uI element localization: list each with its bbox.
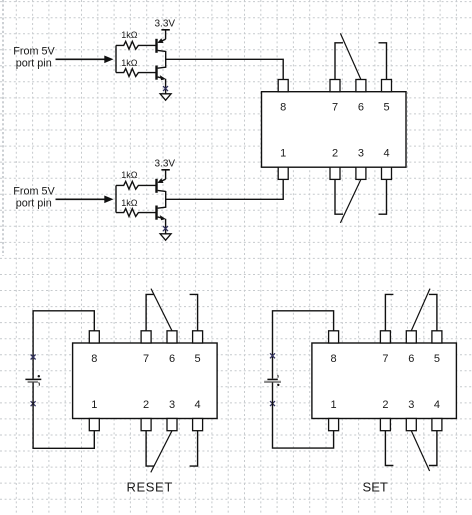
U3 pin 5 xyxy=(432,331,442,343)
switch contact at U2 bottom outer pin B xyxy=(190,431,198,466)
connection point x mark 2 xyxy=(163,226,168,231)
resistor 1k (upper) 2 xyxy=(116,181,156,189)
transistor PNP (upper) 2 xyxy=(155,179,157,193)
U2 pin 4 xyxy=(193,419,203,431)
battery B1 xyxy=(25,378,41,380)
switch contact at U1 bottom outer pin A xyxy=(335,179,343,214)
U3 pin 3 xyxy=(406,419,416,431)
wire: collector junction node 2 xyxy=(165,191,167,208)
switch contact at U3 top outer pin B xyxy=(429,294,437,330)
switch arm at U2 bottom centre pin xyxy=(151,431,172,473)
wire: NPN emitter to ground 1 xyxy=(165,79,167,94)
U1 pin 5 xyxy=(382,80,392,92)
svg-text:4: 4 xyxy=(434,399,440,411)
svg-text:1kΩ: 1kΩ xyxy=(121,58,138,68)
wire: collector junction node 1 xyxy=(165,51,167,68)
svg-text:1: 1 xyxy=(91,399,97,411)
svg-text:8: 8 xyxy=(91,353,97,365)
U3 pin 2 xyxy=(380,419,390,431)
wire: NPN emitter to ground 2 xyxy=(165,219,167,234)
svg-text:2: 2 xyxy=(382,399,388,411)
svg-text:1kΩ: 1kΩ xyxy=(121,30,138,40)
switch contact at U1 bottom outer pin B xyxy=(379,179,387,214)
wire: U3 pin 8 to battery B2 xyxy=(273,311,334,379)
U3 pin 7 xyxy=(380,331,390,343)
resistor 1k (upper) 1 xyxy=(116,41,156,49)
U2 pin 1 xyxy=(89,419,99,431)
svg-text:8: 8 xyxy=(280,102,286,114)
U1 pin 6 xyxy=(356,80,366,92)
svg-text:1kΩ: 1kΩ xyxy=(121,170,138,180)
signal arrow from port pin 1 xyxy=(56,58,106,60)
connection point x mark B1 bottom xyxy=(31,401,36,406)
svg-text:8: 8 xyxy=(331,353,337,365)
transistor PNP (upper) 1 xyxy=(155,39,157,53)
svg-text:3.3V: 3.3V xyxy=(155,158,176,169)
svg-text:From 5V: From 5V xyxy=(13,46,55,58)
svg-text:7: 7 xyxy=(143,353,149,365)
U3 pin 6 xyxy=(406,331,416,343)
svg-text:3.3V: 3.3V xyxy=(155,18,176,29)
U1 pin 4 xyxy=(382,167,392,179)
svg-text:port pin: port pin xyxy=(16,57,52,69)
switch contact at U1 top outer pin A xyxy=(335,43,343,80)
U3 pin 1 xyxy=(329,419,339,431)
wire: U2 pin 8 to battery B1 xyxy=(33,311,94,379)
connection point x mark B2 top xyxy=(270,353,275,358)
switch arm at U3 top centre pin xyxy=(411,289,430,331)
svg-text:From 5V: From 5V xyxy=(13,186,55,198)
connection point x mark B2 bottom xyxy=(270,401,275,406)
signal arrow from port pin 2 xyxy=(56,198,106,200)
switch contact at U2 top outer pin A xyxy=(146,294,154,330)
U1 pin 7 xyxy=(330,80,340,92)
U1 pin 3 xyxy=(356,167,366,179)
IC U3 DIP-8 body xyxy=(312,343,457,419)
U3 pin 8 xyxy=(329,331,339,343)
IC U2 DIP-8 body xyxy=(73,343,218,419)
switch contact at U3 bottom outer pin B xyxy=(429,431,437,466)
svg-text:2: 2 xyxy=(143,399,149,411)
svg-text:7: 7 xyxy=(332,102,338,114)
svg-text:4: 4 xyxy=(195,399,201,411)
svg-text:RESET: RESET xyxy=(127,479,173,494)
U1 pin 8 xyxy=(278,80,288,92)
switch contact at U3 bottom outer pin A xyxy=(385,431,393,466)
switch arm at U2 top centre pin xyxy=(151,289,172,331)
3.3V supply rail bar 1 xyxy=(161,29,169,31)
svg-text:1kΩ: 1kΩ xyxy=(121,198,138,208)
ground symbol 1 xyxy=(160,94,171,100)
U1 pin 2 xyxy=(330,167,340,179)
wire: input node bracket 1 xyxy=(115,45,117,72)
wire: battery B1 to U2 pin 1 xyxy=(33,382,94,448)
switch arm at U3 bottom centre pin xyxy=(411,431,429,471)
svg-text:3: 3 xyxy=(358,148,364,160)
svg-text:port pin: port pin xyxy=(16,197,52,209)
U3 pin 4 xyxy=(432,419,442,431)
wire: block1 output to U1 pin 8 xyxy=(166,59,284,79)
connection point x mark 1 xyxy=(163,86,168,91)
svg-text:4: 4 xyxy=(383,148,389,160)
battery B2 xyxy=(267,378,277,380)
svg-text:6: 6 xyxy=(358,102,364,114)
svg-text:5: 5 xyxy=(383,102,389,114)
svg-text:2: 2 xyxy=(332,148,338,160)
wire: input node bracket 2 xyxy=(115,185,117,212)
wire: battery B2 to U3 pin 1 xyxy=(273,382,334,448)
resistor 1k (lower) 1 xyxy=(116,69,156,77)
switch contact at U1 top outer pin B xyxy=(379,43,387,80)
svg-text:3: 3 xyxy=(408,399,414,411)
U2 pin 5 xyxy=(193,331,203,343)
connection point x mark B1 top xyxy=(31,355,36,360)
svg-text:5: 5 xyxy=(434,353,440,365)
3.3V supply rail bar 2 xyxy=(161,169,169,171)
U2 pin 7 xyxy=(141,331,151,343)
transistor NPN (lower) 2 xyxy=(155,206,157,220)
wire: block2 output to U1 pin 1 xyxy=(166,179,284,199)
svg-text:3: 3 xyxy=(169,399,175,411)
IC U1 DIP-8 body xyxy=(262,92,407,168)
switch contact at U3 top outer pin A xyxy=(385,294,393,330)
svg-text:1: 1 xyxy=(331,399,337,411)
svg-text:1: 1 xyxy=(280,148,286,160)
svg-text:SET: SET xyxy=(363,480,388,495)
U2 pin 6 xyxy=(167,331,177,343)
wire: supply to PNP emitter 1 xyxy=(165,30,167,39)
resistor 1k (lower) 2 xyxy=(116,209,156,217)
switch arm at U1 bottom centre pin xyxy=(340,179,361,223)
switch contact at U2 top outer pin B xyxy=(190,294,198,330)
U2 pin 8 xyxy=(89,331,99,343)
svg-text:7: 7 xyxy=(382,353,388,365)
wire: supply to PNP emitter 2 xyxy=(165,170,167,179)
U2 pin 2 xyxy=(141,419,151,431)
U1 pin 1 xyxy=(278,167,288,179)
svg-text:5: 5 xyxy=(195,353,201,365)
svg-text:6: 6 xyxy=(408,353,414,365)
transistor NPN (lower) 1 xyxy=(155,66,157,80)
switch contact at U2 bottom outer pin A xyxy=(146,431,154,466)
ground symbol 2 xyxy=(160,234,171,240)
U2 pin 3 xyxy=(167,419,177,431)
svg-text:6: 6 xyxy=(169,353,175,365)
switch arm at U1 top centre pin xyxy=(340,33,361,79)
